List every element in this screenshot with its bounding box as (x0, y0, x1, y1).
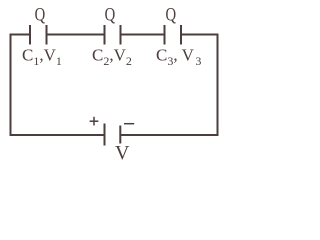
svg-text:Q: Q (166, 5, 177, 26)
svg-text:Q: Q (105, 5, 116, 26)
svg-text:C1,V1: C1,V1 (22, 46, 62, 69)
svg-text:C3,V3: C3,V3 (156, 46, 201, 69)
svg-text:Q: Q (35, 5, 46, 26)
svg-text:V: V (115, 142, 130, 160)
svg-text:C2,V2: C2,V2 (92, 46, 132, 69)
